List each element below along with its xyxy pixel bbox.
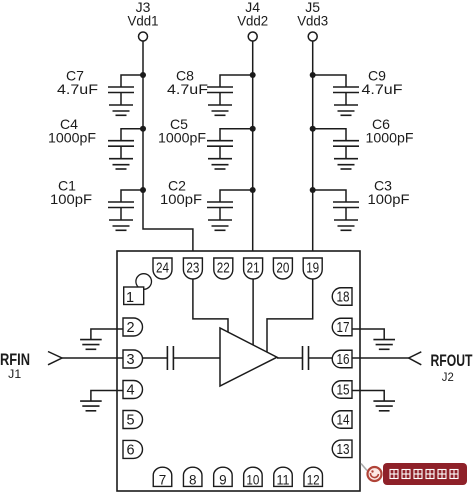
svg-text:17: 17 [337,320,350,336]
op-amp U1 amplifier triangle [220,328,277,386]
pin 11 [274,467,293,487]
ground [334,220,358,230]
pin 1 [124,287,144,306]
svg-text:Vdd2: Vdd2 [237,13,268,29]
wire output cap through pin 16 to RFOUT [309,357,409,359]
wire RFIN to pin 3 and input coupling cap [62,357,167,359]
pin 24 [153,258,172,279]
capacitor C6 1000pF [313,116,414,159]
watermark logo [361,464,382,482]
pin 10 [244,467,263,487]
pin 1 indicator circle [136,274,152,290]
svg-text:14: 14 [337,413,350,429]
wire amplifier to output coupling cap [277,357,303,359]
svg-text:4.7uF: 4.7uF [362,81,403,97]
capacitor C8 4.7uF [167,68,253,106]
pin 8 [183,467,202,487]
svg-text:5: 5 [126,413,134,429]
svg-text:11: 11 [277,473,290,488]
wire pin 17 to ground [352,329,384,340]
svg-text:1000pF: 1000pF [48,130,96,146]
ground [334,159,358,169]
pin 6 [123,440,143,458]
pin 7 [153,467,172,487]
ground [208,220,232,230]
capacitor C5 1000pF [158,116,253,159]
coupling capacitor input [167,346,173,370]
coupling capacitor output [303,346,309,370]
svg-text:4: 4 [126,383,134,399]
svg-text:22: 22 [217,261,230,277]
op-amp IC U1 body [117,251,360,491]
svg-text:4.7uF: 4.7uF [167,81,208,97]
node junction C [140,187,146,193]
node junction B [140,126,146,132]
wire pin 4 to ground [91,391,123,402]
svg-text:3: 3 [126,352,134,368]
wire Vdd1 trunk from J3 to pin 23 [143,42,193,260]
node junction I [310,187,316,193]
ground [208,159,232,169]
pin 15 [332,381,352,399]
svg-text:13: 13 [337,442,350,458]
ground [334,105,358,115]
svg-text:12: 12 [307,473,320,488]
wire pin 15 to ground [352,391,384,402]
capacitor C7 4.7uF [57,68,143,106]
ground [373,401,395,411]
port J1 RFIN arrow [0,351,62,381]
pin 23 [183,258,202,279]
svg-text:20: 20 [276,261,289,277]
pin 22 [214,258,233,279]
watermark badge [383,463,467,485]
svg-text:1: 1 [126,290,134,306]
capacitor C9 4.7uF [313,68,403,106]
svg-text:Vdd3: Vdd3 [297,13,328,29]
pin 17 [332,318,352,336]
node junction G [310,72,316,78]
capacitor C4 1000pF [48,116,143,159]
capacitor C3 100pF [313,178,410,221]
ground [373,340,395,350]
wire pin 19 bias feed [267,277,313,352]
pin 18 [332,288,352,306]
ground [80,340,102,350]
pin 14 [332,411,352,429]
connector J4 [237,0,268,41]
svg-text:1000pF: 1000pF [366,130,414,146]
svg-text:10: 10 [246,473,259,488]
svg-text:6: 6 [126,442,134,458]
pin 2 [123,318,143,336]
svg-text:J2: J2 [442,370,454,384]
ground [109,105,133,115]
pin 5 [123,411,143,429]
svg-text:100pF: 100pF [368,191,410,207]
connector J5 [297,0,328,41]
svg-text:21: 21 [247,261,260,277]
pin 20 [273,258,292,279]
pin 12 [304,467,323,487]
node junction F [250,187,256,193]
svg-text:7: 7 [159,473,167,488]
pin 16 [332,350,352,368]
node junction A [140,72,146,78]
svg-text:18: 18 [337,290,350,306]
svg-text:9: 9 [219,473,227,488]
svg-text:2: 2 [126,320,134,336]
svg-text:1000pF: 1000pF [158,130,206,146]
svg-text:19: 19 [306,261,319,277]
capacitor C2 100pF [160,178,253,221]
pin 19 [303,258,322,279]
ground [208,105,232,115]
ground [80,401,102,411]
svg-text:15: 15 [337,383,350,399]
svg-text:100pF: 100pF [160,191,202,207]
svg-text:24: 24 [156,261,169,277]
connector J3 [128,0,159,41]
pin 9 [214,467,233,487]
capacitor C1 100pF [50,178,143,221]
pin 21 [244,258,263,279]
wire pin 23 bias feed [193,277,228,332]
pin 13 [332,440,352,458]
wire input cap to amplifier [173,357,220,359]
wire Vdd2 trunk from J4 to pin 21 [252,42,254,260]
svg-text:8: 8 [189,473,197,488]
port J2 RFOUT arrow [409,352,473,384]
svg-text:J1: J1 [8,367,21,381]
pin 3 [123,350,143,368]
node junction E [250,126,256,132]
ground [109,220,133,230]
ground [109,159,133,169]
svg-text:Vdd1: Vdd1 [128,13,159,29]
wire Vdd3 trunk from J5 to pin 19 [312,42,314,260]
node junction H [310,126,316,132]
pin 4 [123,381,143,399]
svg-text:RFOUT: RFOUT [431,352,473,370]
svg-text:16: 16 [337,352,350,368]
svg-text:4.7uF: 4.7uF [57,81,98,97]
svg-text:23: 23 [186,261,199,277]
svg-text:100pF: 100pF [50,191,92,207]
wire pin 2 to ground [91,329,123,340]
wire pin 21 bias feed [252,277,254,345]
node junction D [250,72,256,78]
